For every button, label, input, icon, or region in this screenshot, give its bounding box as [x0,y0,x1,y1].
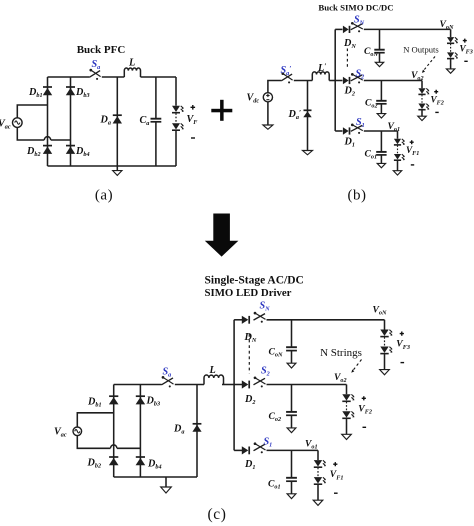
polarity + of VF1 (b) [410,140,414,144]
AC source Vac [12,118,22,128]
capacitor Co2 (c) [286,412,297,415]
wire: Vo1 LED string to ground [397,161,399,171]
switch S2 (c) [254,376,266,387]
wire: switch SN to output node (c) [267,319,385,321]
wire: bus to diode DN [335,28,342,30]
ground below Vo1 LED string (c) [313,500,323,505]
svg-text:VF: VF [187,114,199,126]
wire: Vdc negative to ground [267,102,269,125]
polarity + of VF2 (b) [434,90,438,94]
wire: VoN LED string to ground [450,59,452,69]
diode Db3 (c) [136,396,146,404]
wire: freewheel diode Da branch [116,77,118,166]
polarity - of VF1 (c) [334,492,338,494]
svg-text:Ca: Ca [140,115,150,127]
svg-text:Db4: Db4 [75,146,90,158]
polarity + of VF3 (c) [400,332,404,336]
wire: bridge left leg (c) [113,385,115,478]
wire: capacitor Co2 to ground (c) [291,415,293,428]
wire: bottom rail (c) [114,476,197,478]
wire: switch S2 to output node Vo2 [364,80,422,82]
diode Db4 (c) [136,457,146,465]
ground below Da' [303,151,313,155]
polarity - of VF [191,137,195,139]
polarity - of VF2 (c) [363,426,367,428]
wire: bridge top rail to switch Sa (c) [114,384,162,386]
wire: Vac bottom terminal toward bridge (c) [77,436,110,449]
ground below Co2 [377,114,385,118]
svg-text:Da′: Da′ [288,108,302,121]
svg-text:N Strings: N Strings [320,347,362,359]
switch Sa (c) [162,376,174,387]
wire: switch S2 to output node (c) [267,384,347,386]
svg-text:S1: S1 [356,117,365,129]
wire: LED string Vo1 top (c) [317,450,319,460]
svg-text:D1: D1 [344,137,355,149]
wire: VoN LED string top [450,29,452,37]
wire: LED string top (a) [175,77,177,106]
ground below Co1 [377,163,385,167]
svg-text:Vo1: Vo1 [305,439,318,451]
wire: capacitor Co2 to ground [380,104,382,114]
svg-text:VF2: VF2 [358,403,372,415]
svg-text:Sa: Sa [163,367,172,379]
dashed continuation between branch N and branch 2 (b) [346,49,348,69]
switch Sa' [281,72,292,83]
ground below Co1 (c) [287,494,296,499]
wire: ground stem (c) [165,477,167,487]
polarity + of VF1 (c) [333,462,337,466]
svg-text:SN: SN [260,301,271,313]
wire hop over bridge left leg [44,137,50,140]
wire: bridge left leg (Db1/Db2) [47,77,49,166]
svg-text:L: L [209,365,216,376]
svg-text:Vdc: Vdc [247,93,260,105]
wire: inductor L to output node [141,76,177,78]
diode Db3 [66,87,75,95]
wire: bottom rail (a) [48,165,177,167]
wire: dashed LED continuation Vo1 (c) [317,468,319,477]
diode DN [343,26,350,34]
svg-text:VoN: VoN [440,19,455,31]
svg-text:Co1: Co1 [365,149,378,161]
svg-text:SIMO LED Driver: SIMO LED Driver [205,287,292,299]
plus sign between (a) and (b) [211,100,232,121]
LED string Vo2 upper LED [418,88,429,94]
wire: inductor L' to branch bus [329,80,335,82]
wire: bridge right leg (Db3/Db4) [70,77,72,166]
ground (c) [161,487,172,493]
wire: capacitor Co1 branch (c) [291,450,293,477]
wire: bridge top rail to switch Sa [48,76,90,78]
LED string VoN upper LED [447,37,458,43]
diode D1 [343,127,350,135]
svg-text:Sa: Sa [92,59,101,71]
inductor L [124,68,140,77]
wire: LED string Vo2 top (c) [346,385,348,395]
svg-text:VF3: VF3 [396,339,410,351]
wire: LED string bottom (a) [175,130,177,166]
ground below VoN LED string (c) [380,370,390,375]
capacitor CoN (c) [286,347,297,350]
wire: capacitor CoN to ground (c) [291,351,293,364]
wire: dashed LED continuation Vo1 [397,145,399,153]
wire: Vdc positive to switch Sa' [268,81,281,93]
wire: capacitor Co2 branch top [380,81,382,101]
diode Da [113,115,122,123]
diode D2 (c) [242,380,249,388]
switch Sa [89,69,100,80]
svg-text:Vo2: Vo2 [411,70,424,82]
wire: Vo1 LED string top [397,131,399,139]
svg-text:Co1: Co1 [268,479,281,491]
wire: LED string VoN top (c) [384,320,386,330]
wire: capacitor Co1 branch top [380,131,382,152]
polarity - of VF2 (b) [435,111,438,113]
switch S1 [351,124,363,134]
svg-text:SN: SN [354,15,365,27]
wire: freewheel diode Da branch (c) [196,385,198,478]
svg-text:S1: S1 [264,437,273,449]
svg-text:D2: D2 [344,86,355,98]
wire: bridge right leg (c) [139,385,141,478]
wire: hop to bridge right midpoint [51,139,71,141]
block arrow from (a)+(b) down to (c) [205,214,239,257]
ground below CoN (c) [287,363,296,368]
switch SN [351,22,363,32]
LED D1 of output string (a) [172,106,184,113]
svg-text:(a): (a) [95,188,113,204]
svg-text:Db3: Db3 [75,87,90,99]
diode Da (c) [192,424,201,432]
ground below Vo2 LED string (c) [342,434,352,439]
wire: dashed LED string continuation (a) [175,113,177,122]
switch S2 [351,73,363,83]
wire: bus to diode D2 (c) [234,384,242,386]
ground below Co2 (c) [287,428,296,433]
diode DN (c) [242,316,249,324]
LED string Vo2 lower LED [418,104,429,110]
ground below CoN [375,62,383,66]
wire: capacitor Co2 branch (c) [291,385,293,412]
capacitor Co2 [376,101,386,104]
wire: Vo2 LED string top [421,81,423,89]
svg-text:Co2: Co2 [365,98,378,110]
wire: capacitor CoN branch top [379,29,381,49]
svg-text:Da: Da [100,115,111,127]
polarity + of VF [191,105,196,110]
wire: dashed LED continuation Vo2 (c) [346,402,348,411]
svg-text:N Outputs: N Outputs [403,45,439,55]
wire: capacitor CoN to ground [379,53,381,63]
diode Db2 (c) [109,457,119,465]
LED string VoN upper LED (c) [380,330,392,337]
ground (a) [113,171,122,176]
polarity + of VF3 (b) [463,39,467,43]
wire: switch Sa to Da node and inductor (c) [175,384,204,386]
dashed continuation between branch N and branch 2 (c) [248,334,250,374]
diode Db4 [66,146,75,154]
svg-text:DN: DN [244,332,257,344]
svg-text:CoN: CoN [269,347,284,359]
wire: switch S1 to output node Vo1 [364,130,398,132]
capacitor CoN [374,50,384,53]
wire: freewheel diode Da' branch [307,81,309,151]
capacitor Co1 [376,152,386,155]
wire: Vac top terminal to bridge left midpoint [17,105,47,118]
wire hop over bridge left leg (c) [111,445,117,448]
polarity + of VF2 (c) [362,396,366,400]
DC source Vdc [263,93,272,102]
LED string Vo2 upper LED (c) [342,394,354,401]
diode Db1 (c) [109,396,119,404]
svg-text:VF3: VF3 [460,44,473,56]
polarity - of VF3 (b) [464,60,467,62]
svg-text:S2: S2 [261,366,270,378]
svg-text:VF2: VF2 [431,95,444,107]
LED D2 of output string (a) [172,123,184,130]
diode Db2 [43,146,52,154]
svg-text:Db4: Db4 [147,459,162,471]
svg-text:VoN: VoN [373,305,388,317]
wire: output branch bus (b) [334,29,336,131]
polarity - of VF3 (c) [401,362,405,364]
svg-text:Vac: Vac [54,427,67,439]
svg-text:Db2: Db2 [87,458,102,470]
wire: bus to diode D1 [335,130,342,132]
wire: inductor L to branch bus (c) [222,384,234,386]
svg-text:Db1: Db1 [87,397,102,409]
polarity - of VF1 (b) [411,164,414,166]
svg-text:Buck PFC: Buck PFC [77,44,126,56]
svg-text:VF1: VF1 [406,145,419,157]
svg-text:Db3: Db3 [146,396,161,408]
svg-text:(c): (c) [207,506,226,523]
capacitor Co1 (c) [286,478,297,481]
wire: ground stem (a) [116,166,118,171]
wire: hop to bridge right midpoint (c) [117,447,140,449]
switch SN (c) [254,312,266,323]
ground below VoN LED string [446,69,454,73]
wire: LED string Vo2 to ground (c) [346,419,348,435]
wire: switch Sa to node with Da and inductor L [102,76,125,78]
svg-text:Co2: Co2 [269,411,282,423]
svg-text:Vac: Vac [0,119,11,131]
wire: capacitor Ca branch bottom [155,122,157,166]
diode Db1 [43,87,52,95]
wire: dashed LED continuation Vo2 [421,95,423,103]
svg-text:Da: Da [173,424,184,436]
AC source Vac (c) [73,427,82,436]
wire: Vac bottom terminal toward bridge [17,127,44,140]
wire: capacitor Ca branch top [155,77,157,119]
ground below Vo2 LED string [418,116,426,120]
LED string Vo1 lower LED [394,154,405,160]
wire: switch S1 to output node (c) [267,449,319,451]
wire: Vo2 LED string to ground [421,110,423,116]
wire: switch SN to output node VoN [364,28,451,30]
svg-text:Db2: Db2 [26,146,41,158]
ground below Vo1 LED string [393,171,401,175]
svg-text:(b): (b) [348,188,367,204]
wire: capacitor Co1 to ground [380,155,382,164]
wire: bus to diode D1 (c) [234,449,242,451]
diode Da' [303,110,311,117]
wire: capacitor Co1 to ground (c) [291,481,293,494]
inductor L (c) [204,375,224,385]
svg-text:Db1: Db1 [28,87,43,99]
wire: LED string Vo1 to ground (c) [317,485,319,501]
inductor L' [312,72,329,81]
svg-text:Single-Stage AC/DC: Single-Stage AC/DC [205,275,304,287]
svg-text:VF1: VF1 [330,469,344,481]
wire: bus to diode D2 [335,80,342,82]
wire: dashed LED continuation VoN [450,44,452,52]
LED string Vo1 lower LED (c) [314,477,326,484]
diode D1 (c) [242,446,249,454]
LED string Vo2 lower LED (c) [342,411,354,418]
capacitor Ca [151,119,162,122]
wire: switch Sa' to inductor L' with Da' tap [294,80,313,82]
LED string VoN lower LED [447,52,458,58]
ground below Vdc [263,125,273,129]
svg-text:D1: D1 [244,459,255,471]
switch S1 (c) [254,442,266,453]
wire: Vac top terminal to bridge (c) [77,413,113,427]
svg-text:Buck SIMO DC/DC: Buck SIMO DC/DC [318,3,393,13]
diode D2 [343,77,350,85]
LED string Vo1 upper LED [394,139,405,145]
svg-text:S2: S2 [356,69,365,81]
LED string Vo1 upper LED (c) [314,460,326,467]
svg-text:Vo2: Vo2 [334,372,347,384]
svg-text:D2: D2 [244,394,255,406]
wire: dashed LED continuation VoN (c) [384,337,386,346]
svg-text:DN: DN [343,38,356,50]
wire: output branch bus (c) [233,320,235,451]
LED string VoN lower LED (c) [380,347,392,354]
svg-text:CoN: CoN [364,46,379,58]
wire: bus to diode DN (c) [234,319,242,321]
wire: LED string VoN to ground (c) [384,354,386,370]
wire: capacitor CoN branch (c) [291,320,293,347]
svg-text:L: L [128,58,135,69]
